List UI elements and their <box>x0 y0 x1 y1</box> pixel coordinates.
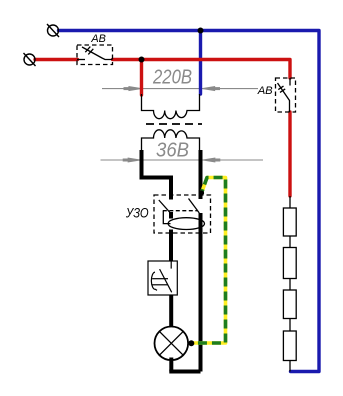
svg-text:УЗО: УЗО <box>125 206 149 221</box>
svg-text:220В: 220В <box>152 67 192 89</box>
svg-text:36В: 36В <box>156 140 189 162</box>
svg-text:АВ: АВ <box>90 33 106 45</box>
svg-text:АВ: АВ <box>257 85 273 97</box>
